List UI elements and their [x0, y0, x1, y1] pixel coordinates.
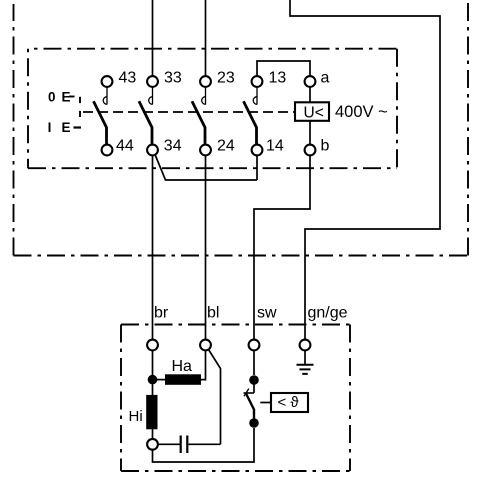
svg-text:Hi: Hi — [129, 408, 143, 425]
svg-text:sw: sw — [257, 305, 277, 322]
svg-text:U<: U< — [304, 105, 324, 122]
svg-text:44: 44 — [116, 137, 134, 154]
svg-text:br: br — [154, 305, 169, 322]
svg-text:Ha: Ha — [172, 358, 193, 375]
svg-text:13: 13 — [269, 69, 287, 86]
svg-text:< ϑ: < ϑ — [278, 394, 300, 411]
svg-text:gn/ge: gn/ge — [308, 305, 348, 322]
svg-text:43: 43 — [119, 69, 137, 86]
svg-text:23: 23 — [217, 69, 235, 86]
svg-text:24: 24 — [217, 137, 235, 154]
svg-text:400V ~: 400V ~ — [335, 103, 388, 121]
svg-text:33: 33 — [164, 69, 182, 86]
svg-text:34: 34 — [164, 137, 182, 154]
svg-text:bl: bl — [207, 305, 219, 322]
svg-text:14: 14 — [266, 137, 284, 154]
svg-text:b: b — [321, 137, 330, 154]
svg-text:a: a — [321, 69, 330, 86]
